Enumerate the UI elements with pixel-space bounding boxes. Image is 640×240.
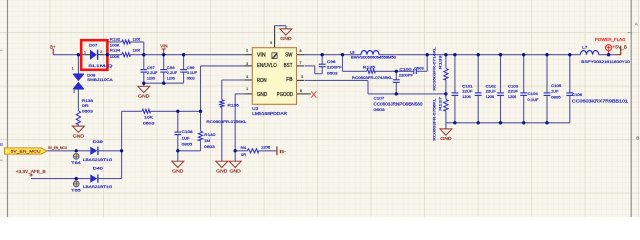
resistor R135 [367, 69, 376, 73]
svg-text:R134: R134 [110, 47, 121, 52]
svg-text:CC0603JRNPO9BN560: CC0603JRNPO9BN560 [374, 101, 424, 106]
svg-text:C106: C106 [572, 92, 583, 97]
svg-text:D07: D07 [89, 43, 98, 48]
ground under C97 rail [138, 86, 150, 92]
svg-text:GND: GND [73, 133, 84, 138]
net label anchor cross [30, 173, 33, 176]
resistor R134 [122, 53, 131, 57]
svg-text:2: 2 [100, 50, 102, 54]
capacitor C98 [160, 70, 167, 73]
wire network [31, 26, 615, 179]
svg-text:C107: C107 [374, 95, 386, 100]
svg-text:9: 9 [270, 41, 272, 45]
svg-text:R91: R91 [241, 146, 247, 150]
ground under R136 [216, 161, 228, 167]
svg-text:FB: FB [286, 77, 293, 83]
svg-text:5V_EN_MCU: 5V_EN_MCU [48, 146, 67, 150]
svg-text:B-: B- [279, 149, 287, 154]
svg-text:GND: GND [440, 136, 451, 141]
test point T64 [73, 153, 79, 159]
svg-text:CC0603KRX7R9BB101: CC0603KRX7R9BB101 [572, 99, 629, 104]
svg-text:GND: GND [216, 168, 227, 173]
svg-text:VIN: VIN [257, 53, 266, 59]
capacitor C101 [452, 93, 459, 96]
svg-text:B: B [0, 142, 3, 147]
svg-text:0603: 0603 [204, 144, 216, 149]
svg-text:1: 1 [72, 66, 74, 70]
capacitor C104 [520, 93, 527, 96]
capacitor C108 [174, 132, 181, 135]
resistor R138 [76, 111, 80, 125]
sheet port 5V_EN_MCU [5, 148, 48, 154]
svg-text:C104: C104 [528, 91, 539, 96]
svg-text:1206: 1206 [133, 47, 141, 52]
capacitor C97 [140, 70, 147, 73]
svg-text:+5V_B: +5V_B [612, 44, 627, 49]
svg-text:LBAS21BT1G: LBAS21BT1G [83, 157, 112, 162]
power port +5V_B [615, 46, 621, 55]
svg-text:C100: C100 [399, 67, 412, 72]
ground under R137 [440, 129, 452, 135]
svg-text:100K: 100K [110, 54, 120, 59]
capacitor C99 [180, 70, 187, 73]
capacitor C105 [544, 93, 551, 96]
svg-text:R133: R133 [438, 56, 443, 70]
svg-text:GND: GND [172, 168, 183, 173]
op-amp/regulator U1 LM5168PDDAR body [252, 48, 296, 105]
svg-text:2200PF: 2200PF [327, 65, 342, 70]
svg-text:0603: 0603 [327, 71, 339, 76]
svg-text:C105: C105 [551, 83, 562, 88]
svg-text:0603: 0603 [143, 121, 156, 126]
svg-text:B+: B+ [50, 44, 56, 49]
svg-text:0603: 0603 [374, 107, 386, 112]
svg-text:0805: 0805 [182, 142, 194, 147]
svg-text:R136: R136 [228, 102, 240, 107]
svg-text:5: 5 [301, 75, 303, 79]
svg-text:BWVS00606064568M50: BWVS00606064568M50 [351, 55, 396, 59]
svg-text:1206: 1206 [508, 94, 517, 99]
svg-text:R140: R140 [204, 132, 216, 137]
svg-text:RC0603FR-0756KL: RC0603FR-0756KL [431, 98, 436, 141]
svg-text:1206: 1206 [462, 94, 471, 99]
ground under R138 [72, 126, 84, 132]
resistor R136 [220, 100, 224, 107]
port B+ [52, 49, 54, 55]
capacitor C100 [414, 69, 417, 74]
svg-text:R138: R138 [82, 98, 94, 103]
svg-text:B: B [636, 135, 639, 141]
svg-text:BSPY00321611600Y10: BSPY00321611600Y10 [581, 60, 630, 64]
svg-text:0R: 0R [241, 153, 246, 157]
inductor L8 [361, 51, 379, 55]
svg-text:3: 3 [246, 62, 248, 66]
capacitor C103 [497, 93, 504, 96]
svg-text:1UF: 1UF [182, 135, 191, 140]
svg-text:L8: L8 [350, 50, 355, 54]
svg-text:GND: GND [280, 36, 291, 41]
svg-text:GND: GND [257, 92, 268, 98]
svg-text:RC0603FR-0714KL: RC0603FR-0714KL [431, 46, 436, 90]
svg-text:R137: R137 [438, 97, 443, 111]
svg-text:EN/UVLO: EN/UVLO [257, 63, 277, 69]
wire junctions [75, 53, 611, 180]
selection highlight box around D07 [81, 40, 107, 70]
svg-text:LBAS21BT1G: LBAS21BT1G [83, 184, 112, 189]
svg-text:C108: C108 [182, 129, 194, 134]
svg-text:0805: 0805 [551, 95, 561, 100]
resistor R133 [444, 68, 448, 80]
diode D07 [90, 50, 98, 60]
test point T65 [73, 181, 79, 187]
svg-text:GND: GND [230, 168, 241, 173]
capacitor C106 [566, 93, 573, 96]
capacitor C107 [393, 80, 400, 83]
svg-text:1206: 1206 [261, 145, 271, 150]
svg-text:POWER_FLAG: POWER_FLAG [595, 37, 626, 42]
svg-text:D40: D40 [93, 165, 104, 170]
ground under U3 GND pin [229, 161, 241, 167]
svg-text:0.1UF: 0.1UF [528, 97, 540, 102]
svg-text:1UF: 1UF [551, 89, 559, 94]
svg-text:1206: 1206 [167, 76, 176, 81]
svg-text:1206: 1206 [147, 76, 156, 81]
svg-text:2.2UF: 2.2UF [167, 70, 178, 75]
svg-text:2: 2 [73, 90, 75, 94]
svg-text:D39: D39 [93, 139, 104, 144]
svg-text:R132: R132 [110, 37, 121, 42]
svg-text:0R: 0R [82, 103, 89, 108]
diode D40 [90, 174, 98, 182]
resistor R132 [122, 40, 131, 44]
ground under C108/R140 [172, 161, 184, 167]
svg-text:SMBJ110CA: SMBJ110CA [87, 77, 113, 82]
svg-text:4: 4 [246, 75, 248, 79]
svg-text:6: 6 [300, 89, 302, 93]
svg-text:10K: 10K [144, 115, 153, 120]
svg-text:2200PF: 2200PF [399, 72, 414, 77]
port B- [276, 146, 278, 155]
svg-text:LM5168PDDAR: LM5168PDDAR [252, 111, 287, 116]
svg-text:0603: 0603 [187, 76, 196, 81]
svg-text:1206: 1206 [133, 37, 141, 42]
ground above U3 pad [280, 29, 292, 35]
svg-text:1: 1 [84, 50, 86, 54]
TVS diode D08 [73, 74, 84, 89]
svg-text:T64: T64 [71, 160, 82, 165]
resistor R140 [198, 131, 202, 141]
no-connect X on PGOOD pin 6 [311, 91, 316, 97]
svg-text:GND: GND [138, 94, 149, 99]
inductor L7 [580, 51, 598, 55]
svg-text:+3.3V_AFE_B: +3.3V_AFE_B [16, 169, 46, 174]
capacitor C96 [319, 64, 326, 67]
resistor R91 [247, 149, 258, 153]
power port VIN [162, 49, 166, 55]
svg-text:2: 2 [246, 49, 248, 53]
U3 thermal pad symbol [272, 53, 277, 59]
svg-text:C96: C96 [327, 59, 337, 64]
svg-text:0603: 0603 [414, 65, 424, 70]
IC and diode pin stubs [84, 26, 311, 94]
resistor R137 [444, 99, 448, 111]
POWER_FLAG symbol [606, 45, 612, 55]
svg-text:8: 8 [300, 49, 302, 53]
svg-text:L7: L7 [582, 45, 587, 49]
svg-text:SL1M-Q: SL1M-Q [88, 63, 112, 68]
diode D39 [90, 147, 98, 155]
svg-text:RC0603FR-0756KL: RC0603FR-0756KL [206, 119, 247, 124]
svg-text:BST: BST [284, 63, 293, 69]
svg-text:1: 1 [246, 87, 248, 91]
resistor R139 10K [142, 109, 151, 113]
svg-text:RON: RON [257, 78, 267, 84]
svg-text:RC0603FR-07435KL: RC0603FR-07435KL [352, 75, 394, 80]
svg-text:2.2UF: 2.2UF [147, 70, 158, 75]
svg-text:0.1UF: 0.1UF [187, 70, 198, 75]
svg-text:PGOOD: PGOOD [277, 92, 294, 98]
svg-text:VIN: VIN [160, 44, 167, 49]
svg-text:1M: 1M [204, 138, 210, 143]
svg-text:5V_EN_MCU: 5V_EN_MCU [11, 149, 41, 154]
svg-text:0603: 0603 [82, 109, 94, 114]
svg-text:T65: T65 [71, 188, 82, 193]
svg-text:1206: 1206 [486, 94, 495, 99]
svg-text:R135: R135 [363, 64, 376, 69]
svg-text:SW: SW [285, 53, 293, 59]
capacitor C102 [475, 93, 482, 96]
svg-text:7: 7 [300, 61, 302, 65]
